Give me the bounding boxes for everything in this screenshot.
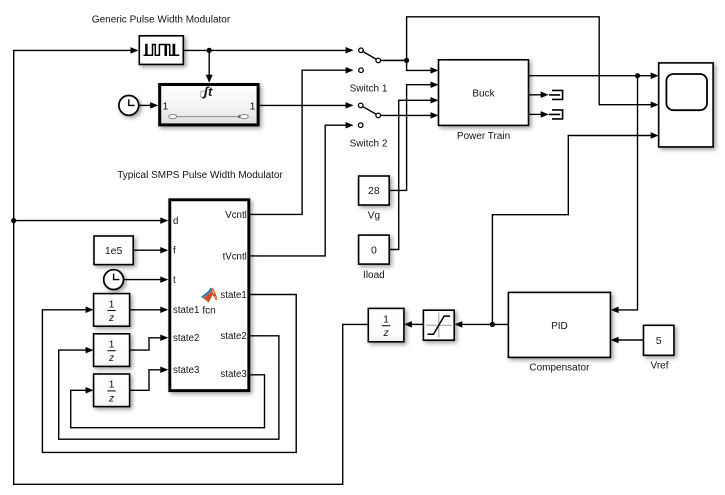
svg-text:t: t — [173, 275, 176, 286]
block: Clock (analog clock icon) feeding subsystem — [119, 96, 139, 116]
block: Unit Delay U3 (state2) 1/z — [94, 334, 130, 367]
wire: PID output to Saturation input — [454, 321, 508, 328]
junction: switch 1 output node — [404, 58, 409, 63]
wire: fcn state3 output feedback loop into U5 — [71, 375, 265, 428]
block: Pulse Generator (PWM waveform icon) — [139, 36, 183, 65]
svg-text:Vcntl: Vcntl — [225, 210, 247, 221]
block: Manual Switch 1 — [359, 48, 407, 72]
wire: Buck output 1 to Scope input 1 — [529, 72, 659, 79]
block: Terminator 2 — [549, 109, 563, 120]
svg-text:Switch 1: Switch 1 — [350, 84, 388, 95]
svg-text:1e5: 1e5 — [105, 245, 123, 257]
svg-text:state2: state2 — [220, 331, 246, 342]
block: Unit Delay U4 (control loop) 1/z — [368, 308, 404, 341]
junction: PID output node branching to Scope input 3 — [490, 322, 495, 327]
svg-text:1: 1 — [109, 339, 115, 351]
wire: branch from feedback rail to fcn input d — [14, 217, 169, 224]
svg-text:f: f — [173, 246, 176, 257]
svg-text:Buck: Buck — [472, 88, 495, 99]
wire: Switch 1 output to Buck input 1 — [381, 60, 439, 73]
junction: pulse output branch down to PWM subsystem trigger — [207, 48, 212, 53]
wire: U3 output to fcn input state2 — [130, 335, 169, 351]
wire: clock 2 to fcn input t — [123, 276, 168, 283]
block: Buck power train subsystem — [439, 60, 529, 126]
svg-text:1: 1 — [109, 379, 115, 391]
wire: branch from switch 1 node up over to Scope input 2 — [407, 17, 659, 108]
wire: fcn tVcntl output up to Switch 2 lower input — [249, 122, 353, 256]
label: Iload — [363, 270, 385, 281]
svg-text:ʃt: ʃt — [202, 84, 213, 99]
title: Generic Pulse Width Modulator — [92, 15, 231, 26]
label: Switch 1 — [350, 84, 388, 95]
junction: Buck output 1 node feeding PID feedback — [635, 73, 640, 78]
block: Clock 2 feeding fcn input t — [104, 270, 124, 290]
label: Vref — [651, 360, 669, 371]
wire: fcn Vcntl output up to Switch 1 lower input — [249, 67, 353, 214]
block: PWM subsystem U1 with slider control and ft badge — [160, 84, 258, 125]
wire: subsystem output to Switch 2 upper input — [260, 102, 354, 109]
wire: branch from PID output node up to Scope input 3 — [492, 132, 658, 324]
wire: branch down into subsystem top port — [206, 50, 213, 82]
block: PID controller — [508, 292, 610, 357]
block: Manual Switch 2 — [358, 103, 380, 127]
label: Switch 2 — [350, 138, 388, 149]
svg-text:5: 5 — [656, 335, 662, 347]
icon: MATLAB membrane logo inside fcn block — [201, 288, 217, 303]
svg-text:Iload: Iload — [363, 270, 385, 281]
svg-text:Generic Pulse Width Modulator: Generic Pulse Width Modulator — [92, 15, 231, 26]
svg-text:28: 28 — [368, 185, 380, 197]
svg-text:d: d — [173, 216, 178, 227]
wire: Vref output to PID input 2 — [611, 337, 644, 344]
wire: pulse generator output to Switch 1 upper input — [183, 47, 353, 54]
svg-text:z: z — [108, 312, 115, 324]
svg-text:state2: state2 — [173, 333, 199, 344]
svg-text:state3: state3 — [220, 369, 246, 380]
block: Constant Iload = 0 — [359, 235, 390, 264]
svg-text:state1: state1 — [220, 290, 246, 301]
wire: outer feedback loop from unit-delay U4 output along bottom/left to pulse generator input — [14, 47, 369, 484]
svg-text:1: 1 — [163, 101, 169, 113]
title: Typical SMPS Pulse Width Modulator — [117, 170, 283, 181]
svg-text:Switch 2: Switch 2 — [350, 138, 388, 149]
label: Vg — [368, 211, 380, 222]
svg-text:1: 1 — [250, 101, 256, 113]
wire: Buck output 2 to Terminator 1 — [529, 92, 549, 99]
block: MATLAB Function fcn (Typical SMPS PWM) — [170, 200, 249, 391]
svg-text:Compensator: Compensator — [529, 362, 590, 373]
block: Unit Delay U2 (state1) 1/z — [94, 294, 130, 327]
block: Unit Delay U5 (state3) 1/z — [94, 374, 130, 407]
svg-text:1: 1 — [109, 298, 115, 310]
wire: Iload output up to Buck input 3 — [389, 97, 438, 249]
svg-text:z: z — [108, 352, 115, 364]
wire: Buck output 3 to Terminator 2 — [529, 111, 549, 118]
block: Constant Vg = 28 — [359, 176, 390, 205]
wire: Saturation output to Unit Delay U4 input — [404, 321, 424, 328]
block: Terminator 1 — [549, 90, 563, 101]
svg-text:tVcntl: tVcntl — [223, 251, 247, 262]
junction: node on left feedback rail branching to input d — [11, 218, 16, 223]
svg-text:1: 1 — [383, 314, 389, 326]
svg-text:Power Train: Power Train — [457, 131, 510, 142]
svg-text:Typical SMPS Pulse Width Modul: Typical SMPS Pulse Width Modulator — [117, 170, 283, 181]
wire: U5 output to fcn input state3 — [130, 367, 169, 391]
svg-text:Vref: Vref — [651, 360, 669, 371]
wire: fcn state2 output feedback loop into U3 — [59, 336, 279, 439]
svg-text:fcn: fcn — [202, 305, 215, 316]
label: Power Train — [457, 131, 510, 142]
block: Constant 1e5 (switching frequency) — [94, 236, 133, 265]
wire: U2 output to fcn input state1 — [130, 307, 169, 314]
wire: feedback from Buck output node down to PID input 1 — [611, 76, 638, 313]
wire: 1e5 to fcn input f — [134, 247, 169, 254]
block: Scope — [659, 63, 713, 147]
svg-text:Vg: Vg — [368, 211, 380, 222]
wire: clock to subsystem input port 1 — [138, 102, 158, 109]
block: Saturation — [423, 310, 454, 340]
svg-text:z: z — [108, 392, 115, 404]
svg-text:state1: state1 — [173, 305, 199, 316]
svg-text:0: 0 — [371, 245, 377, 257]
wire: Switch 2 output to Buck input 4 — [381, 112, 439, 119]
svg-text:PID: PID — [551, 321, 568, 332]
label: Compensator — [529, 362, 590, 373]
wire: Vg output up to Buck input 2 — [389, 81, 438, 190]
block: Constant Vref = 5 — [644, 325, 674, 355]
svg-text:z: z — [382, 327, 389, 339]
svg-text:state3: state3 — [173, 365, 199, 376]
label: fcn text — [202, 305, 215, 316]
wire: fcn state1 output feedback loop into U2 — [42, 295, 296, 453]
